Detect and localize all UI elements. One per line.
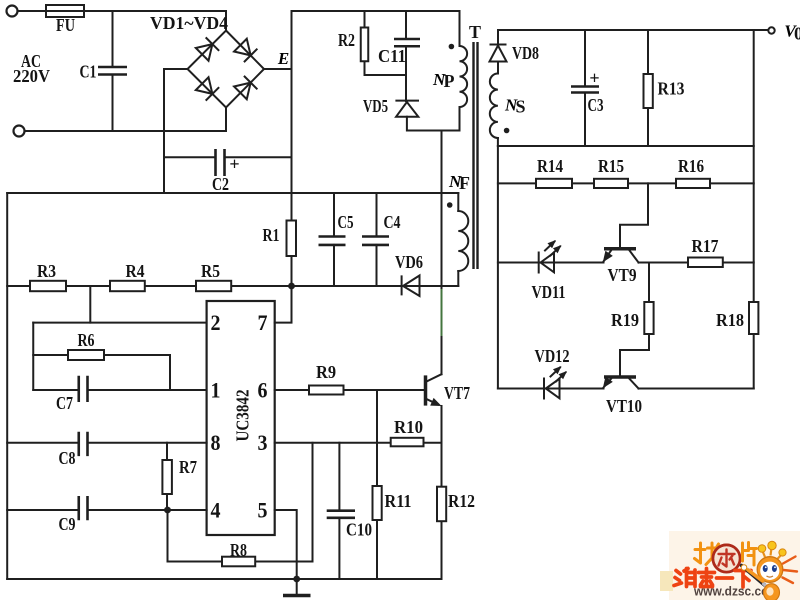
svg-text:6: 6 xyxy=(258,378,268,403)
svg-text:+: + xyxy=(589,68,599,88)
resistor R17 xyxy=(688,258,723,268)
resistor R19 xyxy=(644,302,653,334)
svg-text:VD6: VD6 xyxy=(395,252,423,272)
wire: Np winding leads xyxy=(459,11,461,131)
wire: R13 leads xyxy=(647,30,649,146)
svg-text:E: E xyxy=(277,49,289,68)
svg-text:R16: R16 xyxy=(678,156,704,176)
wire: pin3 row to R8 row column xyxy=(312,443,314,562)
wire: primary ground rail y=193 xyxy=(7,192,458,194)
capacitor C11 xyxy=(394,39,420,46)
capacitor C7 xyxy=(79,376,88,402)
wire: VT10 collector row xyxy=(639,388,754,390)
wire: C11 leads xyxy=(405,11,407,101)
resistor R11 xyxy=(373,486,382,520)
diode VD1 (top-left arm) xyxy=(195,37,219,61)
resistor R6 xyxy=(68,350,104,360)
capacitor C5 xyxy=(319,237,346,245)
wire: NF winding leads xyxy=(457,193,459,286)
resistor R16 xyxy=(676,179,710,188)
svg-text:8: 8 xyxy=(211,430,221,455)
svg-text:C4: C4 xyxy=(384,212,401,232)
capacitor C1 xyxy=(98,67,127,75)
svg-text:R13: R13 xyxy=(658,79,685,99)
svg-text:VD12: VD12 xyxy=(535,346,570,366)
resistor R3 xyxy=(30,281,66,291)
capacitor C2 xyxy=(216,149,225,176)
svg-text:C1: C1 xyxy=(80,62,97,82)
ground xyxy=(283,579,311,596)
wire: pin4 junction down to R8 row xyxy=(167,510,169,562)
resistor R7 xyxy=(162,460,172,494)
phase dot Np xyxy=(449,44,455,50)
terminal: AC input top xyxy=(7,6,18,17)
terminal: AC input bottom xyxy=(14,126,25,137)
wire: R3-R4 junction column to pin2 row xyxy=(89,286,91,323)
wire: VD12 emitter row xyxy=(498,388,604,390)
resistor R4 xyxy=(110,281,145,291)
fuse FU xyxy=(46,5,84,17)
svg-text:4: 4 xyxy=(211,497,221,522)
capacitor C10 xyxy=(327,511,355,518)
wire: pin 8 row xyxy=(7,442,206,444)
wire: R9 to R11 column xyxy=(376,390,378,443)
diode VD5 xyxy=(395,101,419,117)
wire: VT9 collector row with R17 xyxy=(639,262,754,264)
svg-text:VT10: VT10 xyxy=(606,396,642,416)
watermark dzsc.com xyxy=(660,531,800,600)
svg-text:T: T xyxy=(469,22,481,42)
IC U1 UC3842 body xyxy=(207,301,275,535)
svg-text:+: + xyxy=(229,154,239,174)
glyph "zhao" orange xyxy=(695,543,719,565)
resistor R10 xyxy=(391,438,424,447)
svg-text:R2: R2 xyxy=(338,30,355,50)
wire: R7 column xyxy=(166,443,168,510)
resistor R15 xyxy=(594,179,628,188)
svg-text:R18: R18 xyxy=(716,310,744,330)
node: junction dot R5/R1/pin7 xyxy=(288,283,295,290)
resistor R9 xyxy=(309,386,344,395)
svg-text:VD5: VD5 xyxy=(363,96,388,116)
capacitor C9 xyxy=(79,496,88,520)
resistor R13 xyxy=(644,74,653,108)
wire: VT9 base column xyxy=(620,183,648,247)
diode VD8 xyxy=(490,45,507,62)
wire: VT7 emitter lead xyxy=(441,406,443,443)
wire: compensation left rail xyxy=(32,323,34,390)
transformer core T xyxy=(474,42,478,269)
capacitor C4 xyxy=(362,237,389,245)
wire: R1 bottom lead xyxy=(291,256,293,286)
svg-text:R4: R4 xyxy=(126,261,145,281)
svg-text:VT7: VT7 xyxy=(444,383,470,403)
transformer primary winding Np xyxy=(460,46,468,107)
svg-text:R19: R19 xyxy=(611,310,639,330)
wire: R11 column xyxy=(376,443,378,579)
svg-text:C7: C7 xyxy=(56,393,73,413)
wire: top AC rail with bridge top leg xyxy=(18,11,227,31)
wire: C2 leads xyxy=(164,156,292,158)
phase dot NF xyxy=(447,202,453,208)
badge circle with "xin" xyxy=(713,545,740,572)
svg-text:C8: C8 xyxy=(59,448,76,468)
wire: R8 row xyxy=(168,561,313,563)
svg-text:C5: C5 xyxy=(338,212,354,232)
wire: secondary right bus xyxy=(753,30,755,389)
svg-text:R17: R17 xyxy=(692,236,719,256)
wire: R2 leads xyxy=(365,11,407,75)
svg-text:C3: C3 xyxy=(588,95,604,115)
resistor R1 xyxy=(287,221,297,257)
wire: C4 leads xyxy=(376,193,378,286)
wire: R19 column xyxy=(620,263,649,376)
terminal: output V0 xyxy=(768,27,774,33)
diode VD4 (bottom-right arm) xyxy=(234,76,258,100)
svg-text:R6: R6 xyxy=(78,330,95,350)
transistor VT9 xyxy=(599,249,638,265)
svg-text:5: 5 xyxy=(258,497,268,522)
wire: switch-node long vertical Np bottom to VT7 collector xyxy=(441,131,443,375)
diode VD2 (top-right arm) xyxy=(234,38,258,62)
wire: left frame xyxy=(6,193,8,579)
glyph "pian" orange xyxy=(743,543,757,566)
diode VD3 (bottom-left arm) xyxy=(195,77,219,101)
svg-text:R15: R15 xyxy=(598,156,624,176)
svg-text:R11: R11 xyxy=(385,491,412,511)
pen stylus xyxy=(741,565,769,589)
resistor R5 xyxy=(196,281,231,291)
wire: bottom rail xyxy=(7,578,441,580)
resistor R14 xyxy=(536,179,572,188)
svg-text:VT9: VT9 xyxy=(608,265,637,285)
wire: R6 row xyxy=(33,355,170,390)
phase dot Ns xyxy=(504,128,510,134)
svg-text:VD1~VD4: VD1~VD4 xyxy=(150,13,228,33)
svg-text:FU: FU xyxy=(56,15,75,35)
wire: secondary left bus xyxy=(497,146,499,389)
diode VD6 xyxy=(402,275,420,296)
transformer secondary winding Ns xyxy=(490,74,498,139)
svg-text:S: S xyxy=(515,97,525,117)
svg-text:UC3842: UC3842 xyxy=(233,390,253,442)
svg-text:F: F xyxy=(459,173,470,193)
wire: feedback row y=286 (R3 R4 R5 VD6 row) xyxy=(7,285,458,287)
glyphs "weiku yixia" red xyxy=(674,569,751,588)
capacitor C8 xyxy=(79,432,88,456)
wire: node E to DC+ bus and top-right rail xyxy=(264,11,460,221)
wire: pin 7 lead to junction xyxy=(275,286,292,323)
svg-text:R14: R14 xyxy=(537,156,563,176)
svg-text:R5: R5 xyxy=(201,261,220,281)
svg-text:C11: C11 xyxy=(378,46,406,66)
wire: C1 leads xyxy=(112,11,114,131)
resistor R8 xyxy=(222,557,255,567)
transformer feedback winding NF xyxy=(458,211,468,271)
node: junction dot pin4/R7/C9 xyxy=(164,507,171,514)
resistor R2 xyxy=(361,28,369,62)
wire: bottom AC rail with bridge bottom leg xyxy=(25,108,227,132)
wire: secondary top rail xyxy=(498,29,769,31)
svg-text:7: 7 xyxy=(258,310,268,335)
svg-text:R10: R10 xyxy=(394,417,423,437)
svg-text:3: 3 xyxy=(258,430,268,455)
resistor R18 xyxy=(749,302,758,334)
wire: green tinted segment of switch-node line xyxy=(441,289,443,336)
wire: DC minus from bridge left vertex down across AC rail xyxy=(164,69,188,193)
bridge rectifier VD1~VD4 diamond xyxy=(188,31,265,108)
svg-text:1: 1 xyxy=(211,378,221,403)
wire: C10 column xyxy=(338,443,340,579)
LED VD12 xyxy=(544,364,569,400)
wire: pin 5 lead down to ground rail xyxy=(275,510,297,579)
svg-text:C10: C10 xyxy=(346,520,372,540)
wire: C5 leads xyxy=(333,193,335,286)
svg-text:R12: R12 xyxy=(448,491,475,511)
svg-text:R3: R3 xyxy=(37,261,56,281)
wire: pin 4 row xyxy=(7,509,206,511)
node: junction dot on bottom rail xyxy=(293,576,300,583)
wire: VD5 anode to Np bottom xyxy=(407,117,460,131)
wire: R12 column xyxy=(441,443,443,579)
svg-text:VD11: VD11 xyxy=(532,282,566,302)
wire: R14 R15 R16 row xyxy=(498,182,754,184)
svg-text:R7: R7 xyxy=(179,457,197,477)
wire: pin 1 row xyxy=(33,389,206,391)
wire: pin 6 row with R9 xyxy=(275,389,425,391)
svg-text:P: P xyxy=(444,71,455,91)
svg-text:0: 0 xyxy=(794,24,800,44)
wire: pin 2 row xyxy=(33,322,206,324)
wire: VD8 leads xyxy=(497,30,499,74)
transistor VT10 xyxy=(599,377,638,391)
wire: pin 3 row with R10 xyxy=(275,442,442,444)
LED VD11 xyxy=(539,238,564,274)
transistor VT7 xyxy=(426,374,444,410)
resistor R12 xyxy=(437,487,446,522)
svg-text:R9: R9 xyxy=(316,362,336,382)
svg-text:C2: C2 xyxy=(212,174,229,194)
svg-text:2: 2 xyxy=(211,310,221,335)
wire: Ns bottom lead xyxy=(497,138,499,146)
svg-text:C9: C9 xyxy=(59,514,76,534)
wire: C3 leads xyxy=(584,30,586,146)
capacitor C3 xyxy=(571,87,599,93)
wire: secondary rail 2 xyxy=(498,145,754,147)
svg-text:VD8: VD8 xyxy=(512,43,539,63)
svg-text:220V: 220V xyxy=(13,66,50,86)
svg-text:R1: R1 xyxy=(263,225,280,245)
wire: VD11 emitter row xyxy=(498,262,604,264)
svg-text:R8: R8 xyxy=(230,540,247,560)
mascot robot xyxy=(748,541,797,600)
